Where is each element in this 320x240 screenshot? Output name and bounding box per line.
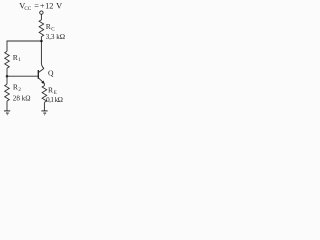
resistor R2 [5, 84, 10, 101]
wire R1 to base node [6, 68, 8, 76]
svg-text:Q: Q [48, 68, 54, 77]
supply terminal circle [40, 11, 43, 14]
svg-text:28 kΩ: 28 kΩ [13, 95, 31, 103]
wire top rail to left branch [7, 41, 41, 51]
transistor Q1 base bar [37, 70, 39, 79]
transistor Q1 emitter arrow [41, 81, 44, 84]
wire RE to ground [43, 102, 45, 110]
wire emitter to RE [43, 84, 45, 86]
svg-text:C: C [51, 27, 55, 32]
resistor RE [42, 86, 47, 103]
wire RC to collector [41, 37, 44, 69]
transistor Q1 collector lead [39, 68, 45, 72]
wire R2 to ground [6, 101, 8, 111]
ground left [4, 111, 10, 115]
label R1 [13, 53, 22, 63]
resistor RC [39, 20, 44, 37]
node base junction [6, 75, 9, 78]
svg-text:V: V [56, 2, 62, 11]
net Vcc label [19, 2, 62, 12]
wire base node to R2 [6, 76, 8, 84]
svg-text:0,1 kΩ: 0,1 kΩ [46, 96, 63, 104]
wire base node to transistor base [7, 75, 38, 77]
svg-text:E: E [54, 91, 57, 96]
label R2 [13, 83, 22, 93]
svg-text:2: 2 [18, 88, 21, 93]
svg-text:=: = [34, 2, 39, 11]
svg-text:1: 1 [18, 58, 21, 63]
node collector junction [40, 40, 43, 43]
label RE [48, 86, 57, 96]
svg-text:12: 12 [45, 2, 53, 11]
transistor Q1 emitter lead [39, 78, 45, 84]
svg-text:3,3 kΩ: 3,3 kΩ [46, 33, 65, 41]
resistor R1 [5, 51, 10, 68]
ground right [41, 111, 47, 115]
wire terminal to RC [40, 14, 42, 19]
svg-text:CC: CC [24, 6, 31, 12]
label RC [46, 22, 56, 32]
